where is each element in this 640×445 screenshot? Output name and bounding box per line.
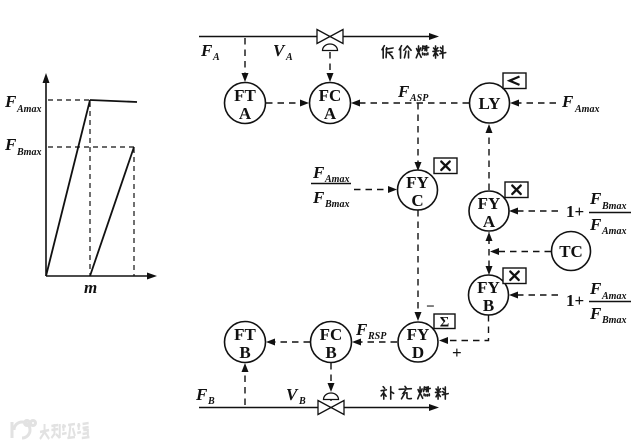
- svg-text:LY: LY: [478, 94, 500, 113]
- svg-text:B: B: [207, 396, 215, 407]
- wire TC to junction: [490, 248, 551, 255]
- svg-text:F: F: [397, 82, 410, 101]
- box multiply B: [503, 268, 526, 284]
- svg-text:FC: FC: [320, 325, 343, 344]
- x axis: [46, 273, 157, 280]
- svg-text:Σ: Σ: [440, 315, 449, 331]
- wire junction to FY C: [415, 103, 422, 171]
- instrument TC: [552, 232, 591, 271]
- dashed vertical m: [89, 102, 91, 276]
- svg-text:Amax: Amax: [601, 291, 626, 302]
- wire pipe B to FT B: [242, 363, 249, 405]
- label FASP: [397, 82, 429, 104]
- svg-text:A: A: [212, 52, 220, 63]
- svg-text:TC: TC: [559, 242, 583, 261]
- wire gain to FY B: [509, 292, 558, 299]
- wire FC B to valve B: [328, 363, 335, 392]
- box multiply A: [505, 182, 528, 198]
- svg-text:F: F: [312, 188, 325, 207]
- svg-text:F: F: [4, 92, 17, 111]
- svg-text:B: B: [298, 396, 306, 407]
- svg-text:−: −: [426, 299, 435, 315]
- instrument FT A: [225, 83, 266, 124]
- label FB: [195, 385, 215, 407]
- wire FY C to FY D: [415, 210, 422, 321]
- svg-text:ASP: ASP: [409, 93, 429, 104]
- label 1+FBmax/FAmax: [566, 189, 631, 237]
- valve VA: [317, 30, 343, 51]
- svg-text:A: A: [285, 52, 293, 63]
- svg-text:F: F: [4, 135, 17, 154]
- svg-text:A: A: [483, 212, 496, 231]
- svg-text:A: A: [324, 104, 337, 123]
- svg-text:F: F: [355, 320, 368, 339]
- ramp line 2: [90, 147, 134, 276]
- dashed level FBmax: [48, 146, 134, 148]
- instrument FT B: [225, 322, 266, 363]
- ramp line 1: [46, 100, 90, 276]
- svg-text:FY: FY: [478, 194, 501, 213]
- instrument FY B: [469, 275, 509, 315]
- label VA: [273, 41, 293, 63]
- svg-text:D: D: [412, 343, 424, 362]
- svg-text:F: F: [589, 189, 602, 208]
- svg-text:1+: 1+: [566, 291, 584, 310]
- svg-text:B: B: [483, 296, 494, 315]
- label FAmax axis: [4, 92, 41, 115]
- label supplementary fuel (CJK): [381, 386, 448, 399]
- svg-text:Bmax: Bmax: [601, 201, 626, 212]
- label FBmax axis: [4, 135, 41, 158]
- svg-text:F: F: [589, 304, 602, 323]
- wire gain to FY A: [509, 208, 558, 215]
- svg-text:F: F: [589, 279, 602, 298]
- instrument LY: [470, 83, 510, 123]
- saturation line: [90, 100, 137, 102]
- watermark: [12, 421, 89, 440]
- svg-text:F: F: [312, 163, 325, 182]
- box multiply C: [434, 158, 457, 174]
- svg-text:FC: FC: [319, 86, 342, 105]
- svg-text:Bmax: Bmax: [324, 199, 349, 210]
- svg-text:Amax: Amax: [601, 226, 626, 237]
- wire pipe to FT A: [242, 38, 249, 82]
- svg-text:Amax: Amax: [574, 104, 599, 115]
- svg-text:Amax: Amax: [16, 104, 41, 115]
- wire ratio to FY C: [354, 186, 397, 193]
- svg-text:F: F: [561, 92, 574, 111]
- label VB: [286, 385, 306, 407]
- wire FAmax to LY: [510, 100, 556, 107]
- svg-text:FY: FY: [407, 325, 430, 344]
- wire FY B to FY D: [439, 315, 489, 344]
- instrument FY C: [398, 170, 438, 210]
- dashed vertical right: [133, 148, 135, 276]
- svg-text:FT: FT: [234, 325, 256, 344]
- svg-text:FY: FY: [477, 278, 500, 297]
- dashed level FAmax: [48, 99, 90, 101]
- instrument FY D: [398, 322, 438, 362]
- svg-text:F: F: [589, 215, 602, 234]
- wire FY A junction FY B: [486, 232, 493, 275]
- svg-text:F: F: [195, 385, 208, 404]
- svg-text:B: B: [239, 343, 250, 362]
- pipe A line: [199, 33, 439, 40]
- svg-text:A: A: [239, 104, 252, 123]
- svg-text:V: V: [286, 385, 299, 404]
- svg-text:Bmax: Bmax: [601, 315, 626, 326]
- svg-text:m: m: [84, 278, 97, 297]
- wire FC B to FT B: [266, 339, 310, 346]
- svg-text:RSP: RSP: [367, 331, 387, 342]
- valve VB: [318, 393, 344, 415]
- wire FY D to FC B (FRSP): [352, 339, 397, 346]
- wire FY A to LY: [486, 124, 493, 190]
- label FAmax right: [561, 92, 599, 115]
- label ratio FAmax/FBmax: [311, 163, 351, 210]
- box sum: [434, 314, 455, 331]
- svg-text:+: +: [452, 343, 462, 362]
- wire LY to FC A (FASP): [351, 100, 469, 107]
- pipe B line: [199, 404, 439, 411]
- instrument FC A: [310, 83, 351, 124]
- label low-price fuel (CJK): [382, 46, 446, 59]
- svg-text:C: C: [411, 191, 423, 210]
- box select low: [503, 73, 526, 89]
- label FA: [200, 41, 220, 63]
- svg-text:1+: 1+: [566, 202, 584, 221]
- svg-text:F: F: [200, 41, 213, 60]
- svg-text:V: V: [273, 41, 286, 60]
- instrument FC B: [311, 322, 352, 363]
- instrument FY A: [469, 191, 509, 231]
- label FRSP: [355, 320, 387, 342]
- svg-text:FT: FT: [234, 86, 256, 105]
- wire FT A to FC A: [266, 100, 309, 107]
- label 1+FAmax/FBmax: [566, 279, 631, 326]
- wire valve to FC A: [327, 52, 334, 82]
- y axis: [43, 73, 50, 276]
- svg-text:B: B: [325, 343, 336, 362]
- svg-text:FY: FY: [406, 173, 429, 192]
- svg-text:Bmax: Bmax: [16, 147, 41, 158]
